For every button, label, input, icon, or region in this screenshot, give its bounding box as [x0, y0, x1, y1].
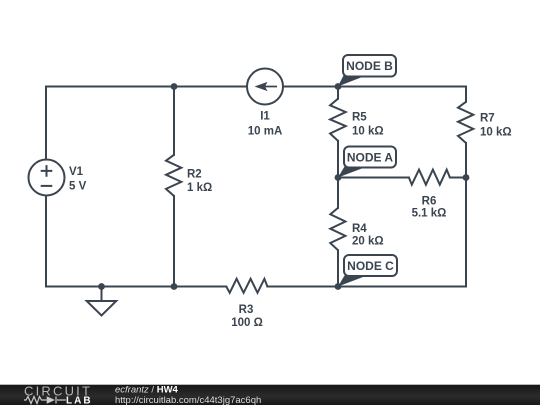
svg-text:R4: R4 [352, 223, 367, 235]
node C pointer [338, 276, 367, 287]
footer logo CIRCUIT [24, 384, 92, 399]
svg-text:R7: R7 [480, 113, 495, 125]
wire R2 top stub [173, 87, 175, 155]
resistor R2 [166, 155, 181, 196]
wire top-left from V1 top to I1 left [46, 87, 247, 160]
label R6 value [412, 196, 447, 220]
junction node B [335, 83, 342, 90]
current source I1 [247, 69, 283, 105]
resistor R4 [330, 208, 345, 250]
wire V1 bottom to R3 left [46, 196, 226, 287]
wire I1 right to top-right corner down to R7 top [283, 87, 466, 102]
wire R5 top stub [337, 87, 339, 99]
V1 minus sign [41, 185, 53, 187]
wire R7 bottom to R6 junction [465, 143, 467, 178]
V1 plus sign [41, 165, 53, 177]
svg-text:http://circuitlab.com/c44t3jg7: http://circuitlab.com/c44t3jg7ac6qh [115, 395, 261, 405]
node A pointer [338, 167, 367, 178]
footer logo resistor-diode [24, 397, 66, 404]
svg-text:V1: V1 [69, 166, 84, 178]
junction node top R2 [171, 83, 178, 90]
junction ground [98, 283, 105, 290]
junction node bottom R2 [171, 283, 178, 290]
footer url [115, 395, 261, 405]
svg-text:10 mA: 10 mA [248, 125, 283, 137]
svg-text:R6: R6 [422, 196, 437, 208]
label R7 value [480, 113, 512, 139]
wire R4 bottom stub to node C [337, 250, 339, 286]
label R4 value [352, 223, 384, 248]
node B label box [343, 55, 396, 77]
label V1 value [69, 166, 87, 193]
svg-text:10 kΩ: 10 kΩ [480, 127, 512, 139]
label R3 value [231, 304, 263, 329]
resistor R3 [226, 279, 267, 293]
footer title ecfrantz / HW4 [115, 385, 179, 396]
resistor R7 [458, 102, 473, 143]
svg-text:100 Ω: 100 Ω [231, 317, 263, 329]
ground [87, 301, 117, 316]
wire R6 right to right rail [450, 177, 466, 179]
svg-text:5.1 kΩ: 5.1 kΩ [412, 208, 447, 220]
resistor R6 [409, 170, 450, 185]
voltage source V1 [29, 160, 65, 196]
label R5 value [352, 112, 384, 138]
junction node C [335, 283, 342, 290]
svg-text:I1: I1 [260, 111, 270, 123]
svg-text:NODE A: NODE A [347, 151, 394, 165]
wire R2 bottom stub [173, 196, 175, 287]
resistor R5 [330, 99, 346, 141]
svg-text:1 kΩ: 1 kΩ [187, 182, 212, 194]
wire R4 top stub from node A [337, 178, 339, 208]
node A label box [344, 147, 396, 168]
svg-text:R5: R5 [352, 112, 367, 124]
wire right rail down to bottom and left to node C [338, 178, 466, 287]
junction node R6-R7 [463, 174, 470, 181]
wire R5 bottom stub to node A [337, 141, 339, 178]
svg-text:ecfrantz / HW4: ecfrantz / HW4 [115, 385, 179, 396]
svg-text:R3: R3 [239, 304, 254, 316]
label I1 value [248, 111, 283, 138]
wire R3 right to node C [267, 286, 338, 288]
svg-text:20 kΩ: 20 kΩ [352, 236, 384, 248]
svg-text:NODE C: NODE C [347, 259, 394, 273]
junction node A [335, 174, 342, 181]
wire node A to R6 left [338, 177, 409, 179]
footer logo LAB [66, 396, 93, 405]
svg-text:NODE B: NODE B [346, 59, 393, 73]
svg-text:5 V: 5 V [69, 181, 87, 193]
footer bar [0, 385, 540, 405]
ground stem wire [101, 287, 103, 302]
svg-text:R2: R2 [187, 169, 202, 181]
label R2 value [187, 169, 212, 195]
node C label box [344, 255, 397, 276]
svg-text:10 kΩ: 10 kΩ [352, 126, 384, 138]
node B pointer [338, 76, 366, 87]
svg-text:LAB: LAB [66, 396, 93, 405]
I1 arrow [255, 82, 278, 91]
